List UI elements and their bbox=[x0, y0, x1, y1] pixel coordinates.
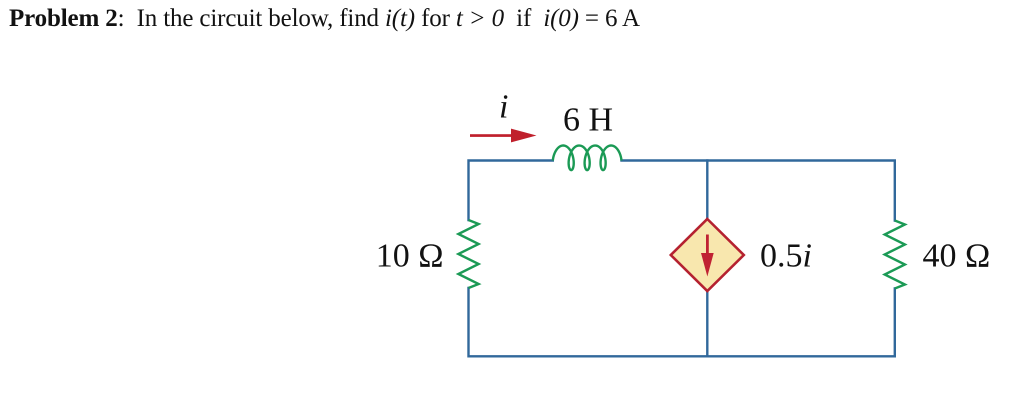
svg-text:Problem 2: In the circuit bel: Problem 2: In the circuit below, find i(… bbox=[9, 5, 640, 32]
svg-text:0.5i: 0.5i bbox=[760, 238, 812, 275]
svg-text:10 Ω: 10 Ω bbox=[376, 238, 444, 275]
svg-text:i: i bbox=[499, 89, 508, 126]
svg-text:6 H: 6 H bbox=[563, 102, 613, 139]
svg-text:40 Ω: 40 Ω bbox=[923, 238, 991, 275]
